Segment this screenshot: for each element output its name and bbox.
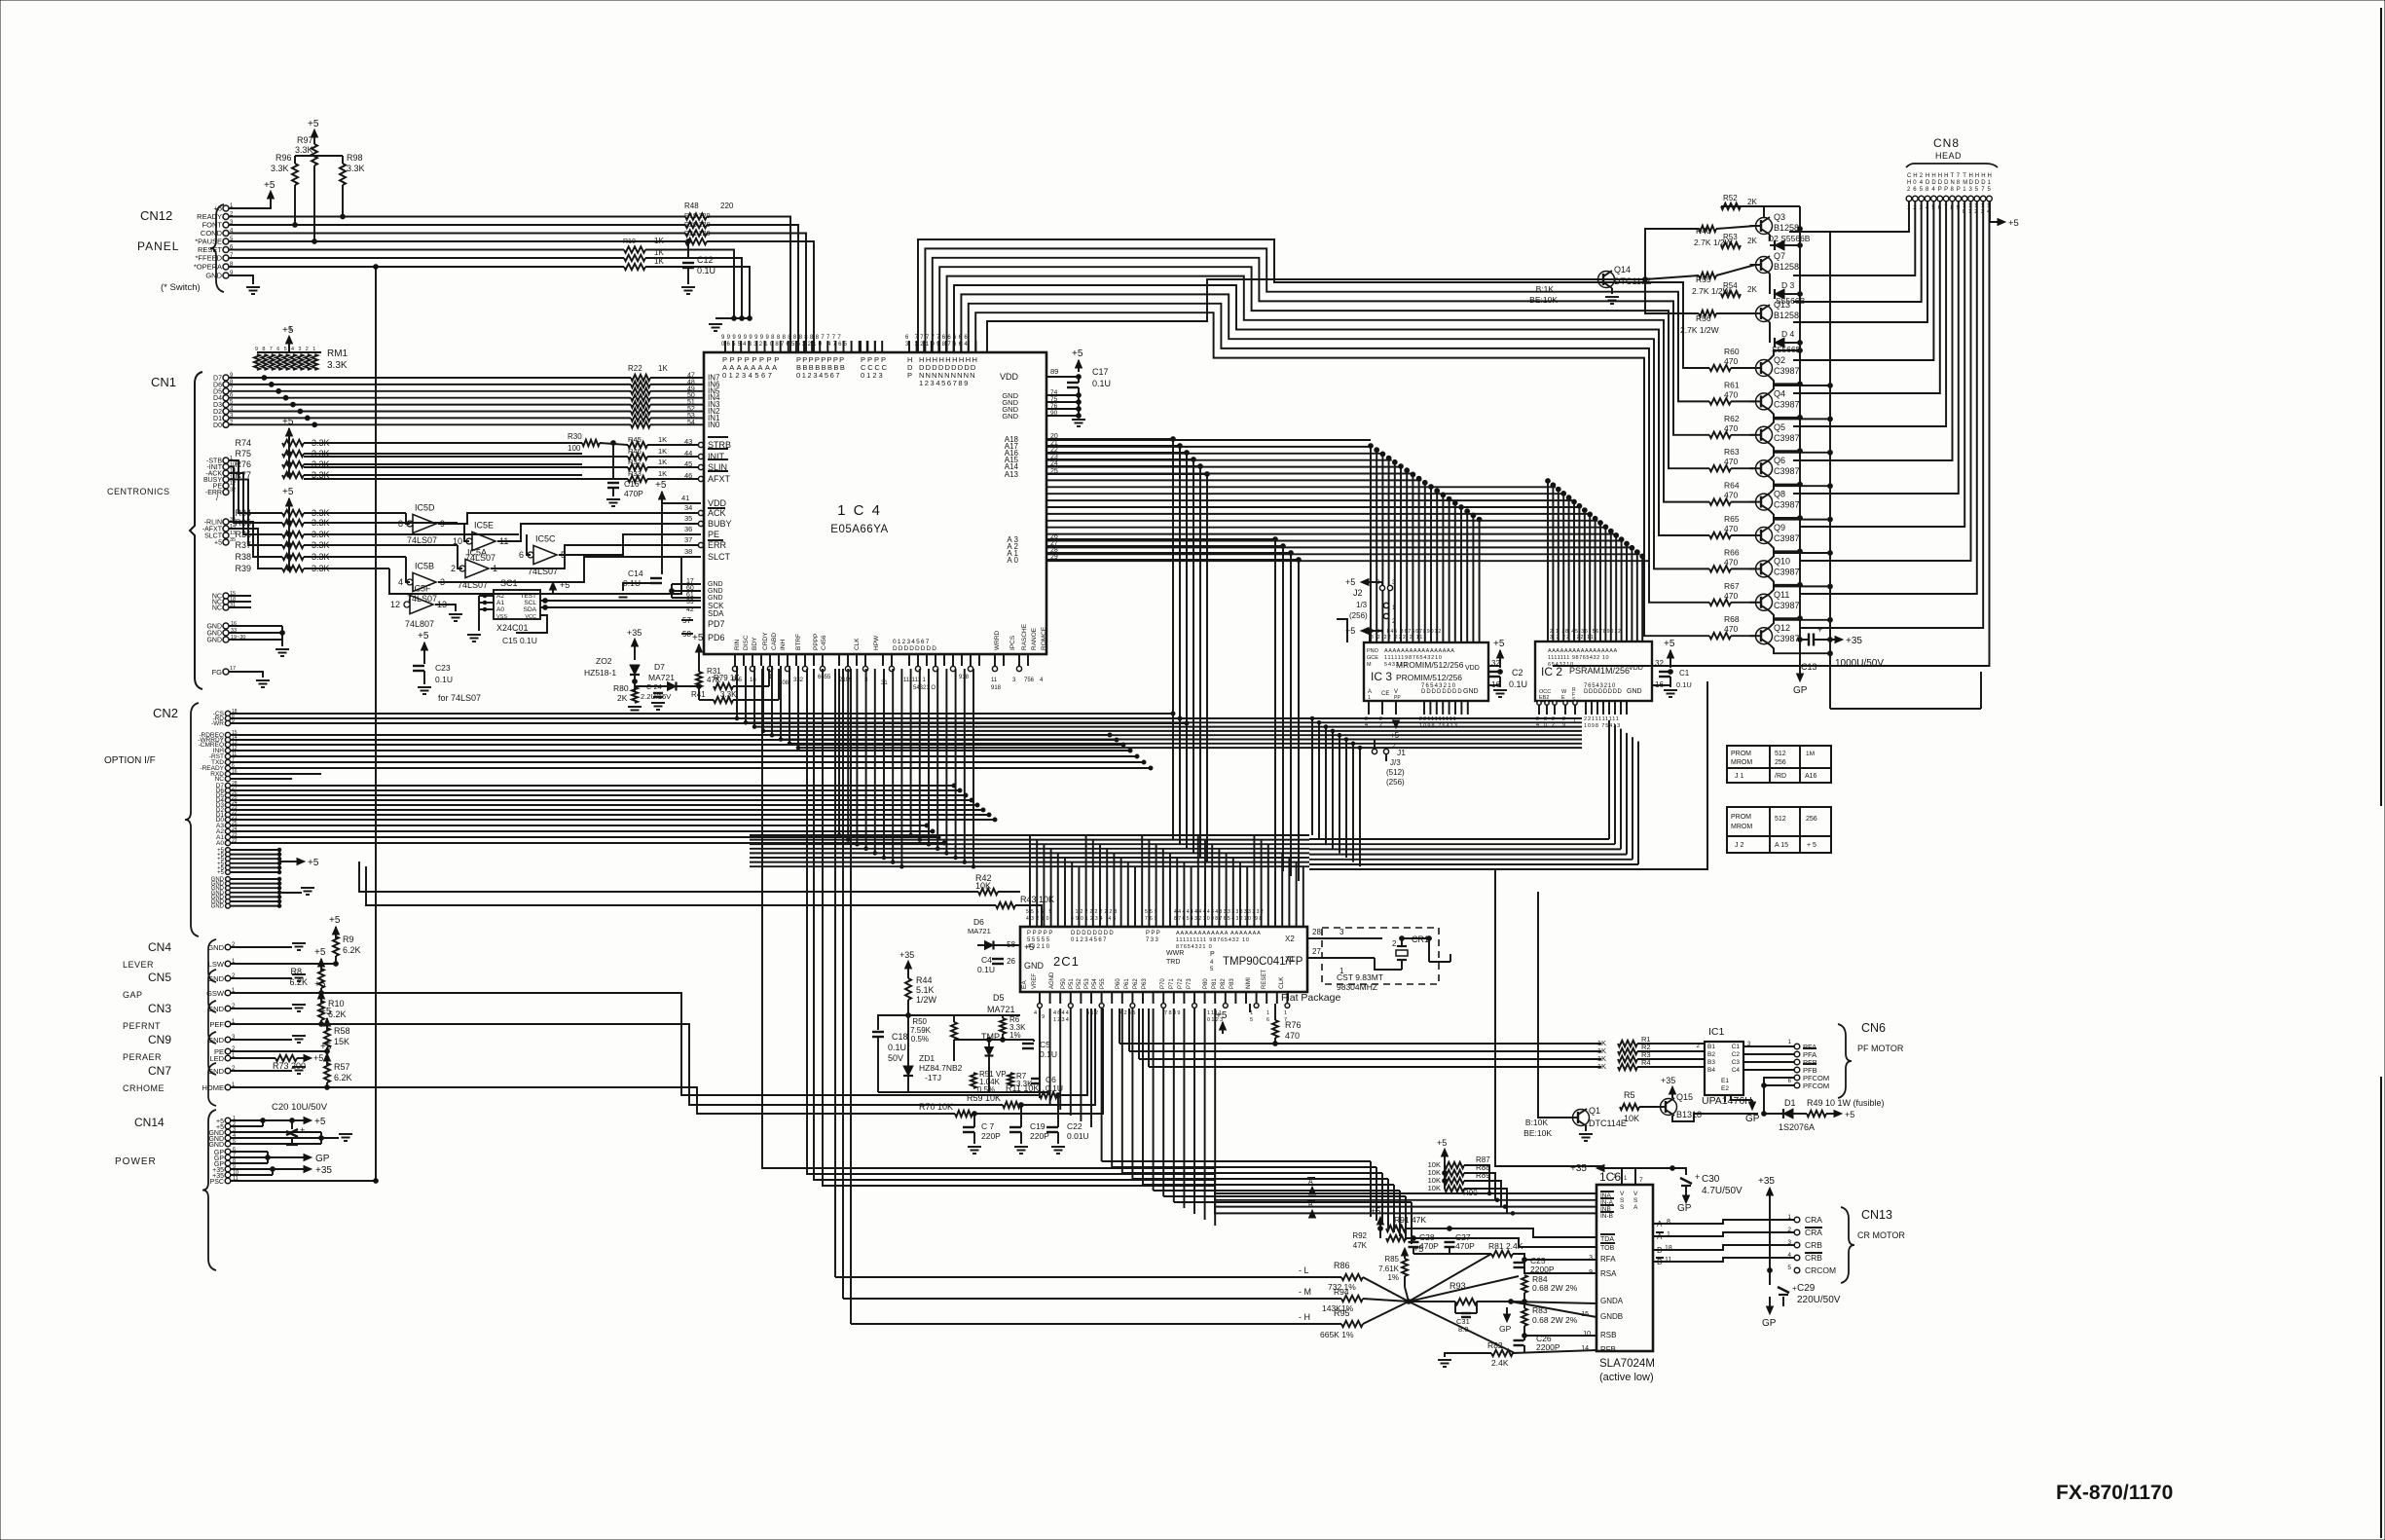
svg-text:LEVER: LEVER	[123, 960, 154, 970]
svg-text:GP: GP	[315, 1154, 330, 1164]
svg-text:D 4: D 4	[1781, 329, 1795, 339]
svg-text:A0: A0	[496, 606, 504, 613]
svg-text:R50: R50	[912, 1017, 927, 1026]
svg-text:*OPERA: *OPERA	[194, 263, 222, 272]
svg-text:1: 1	[1284, 1010, 1287, 1016]
svg-text:(256): (256)	[1349, 611, 1368, 620]
svg-text:V: V	[1620, 1191, 1625, 1197]
svg-text:-RLIN: -RLIN	[204, 520, 222, 527]
svg-text:-WR: -WR	[211, 720, 224, 727]
svg-text:NC: NC	[215, 776, 225, 783]
svg-text:220: 220	[720, 202, 734, 210]
svg-text:2.7K 1/2W: 2.7K 1/2W	[1692, 286, 1731, 296]
svg-text:2: 2	[1392, 939, 1397, 948]
svg-text:+: +	[1695, 1172, 1700, 1182]
svg-text:3.3K: 3.3K	[271, 164, 289, 173]
svg-text:CN1: CN1	[151, 375, 176, 389]
svg-text:GNDB: GNDB	[1600, 1312, 1623, 1321]
svg-text:RANOE: RANOE	[1031, 627, 1038, 650]
svg-text:+5: +5	[560, 580, 569, 590]
svg-text:R22: R22	[628, 364, 642, 373]
svg-text:D 3: D 3	[1781, 280, 1795, 290]
svg-text:2211111111: 2211111111	[1584, 716, 1620, 722]
svg-text:43210: 43210	[1027, 944, 1051, 950]
svg-text:CN3: CN3	[148, 1002, 171, 1015]
svg-text:Q8: Q8	[1774, 490, 1785, 499]
svg-text:3 2 22 222 2 111: 3 2 22 222 2 111	[1371, 635, 1427, 641]
svg-text:DTC113Z: DTC113Z	[1614, 276, 1652, 286]
svg-text:S5566B: S5566B	[1776, 296, 1806, 306]
svg-text:D0: D0	[213, 422, 222, 429]
svg-text:1K: 1K	[1597, 1062, 1606, 1071]
svg-text:DDDDDDDD: DDDDDDDD	[893, 645, 937, 652]
svg-text:R46: R46	[628, 447, 642, 456]
svg-text:R58: R58	[334, 1026, 350, 1036]
svg-text:B1318: B1318	[1676, 1110, 1702, 1119]
svg-text:PANEL: PANEL	[137, 239, 179, 253]
svg-text:CN13: CN13	[1861, 1208, 1892, 1222]
svg-text:01234567: 01234567	[722, 371, 774, 380]
svg-text:T: T	[1951, 173, 1955, 179]
svg-text:2K: 2K	[1747, 285, 1757, 294]
svg-text:11: 11	[991, 678, 998, 683]
svg-text:1K: 1K	[658, 364, 668, 373]
svg-text:PF MOTOR: PF MOTOR	[1857, 1044, 1904, 1053]
svg-text:470: 470	[1724, 491, 1738, 500]
svg-text:01234567: 01234567	[1071, 937, 1108, 943]
svg-text:0.1U: 0.1U	[1092, 379, 1111, 388]
svg-text:+5: +5	[1216, 1010, 1228, 1021]
svg-text:R8: R8	[290, 967, 302, 976]
svg-text:3.3K: 3.3K	[327, 360, 348, 371]
svg-text:R67: R67	[1724, 581, 1740, 591]
svg-text:+5: +5	[282, 487, 294, 497]
svg-text:HOME: HOME	[202, 1083, 225, 1092]
svg-text:- L: - L	[1299, 1265, 1309, 1275]
svg-text:DDDDDDDD: DDDDDDDD	[1584, 689, 1623, 695]
svg-text:P61: P61	[1124, 978, 1130, 989]
svg-text:J 1: J 1	[1735, 773, 1743, 780]
svg-text:2: 2	[1787, 1227, 1791, 1233]
svg-text:27: 27	[1312, 947, 1321, 956]
svg-text:P: P	[1938, 187, 1942, 193]
svg-text:D2 S5566B: D2 S5566B	[1768, 234, 1811, 243]
svg-text:4: 4	[291, 347, 294, 352]
svg-text:01234567: 01234567	[893, 639, 931, 645]
svg-text:512: 512	[1775, 816, 1786, 823]
svg-text:2K: 2K	[1747, 198, 1757, 206]
svg-text:0 39 845 36756789012: 0 39 845 36756789012	[1371, 629, 1442, 635]
svg-text:IC5E: IC5E	[474, 520, 494, 530]
svg-text:PROMIM/512/256: PROMIM/512/256	[1396, 673, 1462, 682]
svg-text:1M: 1M	[1806, 751, 1815, 757]
svg-text:C456: C456	[821, 635, 827, 650]
svg-text:1K: 1K	[658, 469, 667, 478]
svg-text:B:1K: B:1K	[1536, 284, 1555, 294]
svg-text:R68: R68	[1724, 614, 1740, 624]
svg-text:GND: GND	[205, 272, 222, 280]
svg-text:NMI: NMI	[1245, 977, 1252, 989]
svg-text:J1: J1	[1397, 748, 1406, 757]
svg-text:AFXT: AFXT	[708, 474, 731, 484]
svg-text:CN9: CN9	[148, 1033, 171, 1046]
svg-text:470: 470	[1724, 356, 1738, 366]
svg-text:- H: - H	[1299, 1312, 1310, 1322]
svg-text:7: 7	[270, 347, 273, 352]
svg-text:IC5B: IC5B	[415, 561, 434, 570]
svg-text:C3: C3	[1732, 1059, 1741, 1066]
svg-text:R48: R48	[684, 202, 699, 210]
svg-text:8: 8	[398, 519, 403, 529]
svg-text:9999999998888888887777: 9999999998888888887777	[721, 335, 843, 341]
svg-text:1122222223: 1122222223	[1071, 909, 1119, 915]
svg-text:C22: C22	[1067, 1121, 1082, 1131]
svg-text:CRA: CRA	[1805, 1215, 1822, 1225]
svg-text:C1: C1	[1732, 1044, 1741, 1050]
svg-text:GND: GND	[206, 631, 222, 638]
svg-text:PP: PP	[1394, 695, 1401, 701]
svg-text:2C1: 2C1	[1053, 954, 1080, 969]
svg-text:PEF: PEF	[209, 1020, 224, 1029]
svg-text:0.01U: 0.01U	[1067, 1131, 1089, 1141]
svg-text:C12: C12	[697, 255, 714, 265]
svg-text:C3987: C3987	[1774, 533, 1800, 543]
svg-text:SCL: SCL	[524, 600, 536, 606]
svg-text:SDA: SDA	[708, 609, 724, 618]
svg-text:256: 256	[1775, 759, 1786, 766]
svg-text:D5: D5	[993, 993, 1005, 1003]
svg-text:Q12: Q12	[1774, 623, 1790, 633]
svg-text:HPW: HPW	[873, 635, 880, 650]
svg-text:R81 2.4K: R81 2.4K	[1488, 1241, 1523, 1251]
svg-text:4: 4	[1034, 1010, 1037, 1016]
svg-text:B3: B3	[1707, 1059, 1715, 1066]
svg-text:TOB: TOB	[1600, 1245, 1615, 1252]
svg-text:1111111 98765432 10: 1111111 98765432 10	[1548, 655, 1609, 661]
svg-text:-AFXT: -AFXT	[202, 527, 223, 533]
svg-text:PNO: PNO	[1367, 648, 1379, 654]
svg-text:BE:10K: BE:10K	[1529, 295, 1558, 305]
svg-text:(active low): (active low)	[1599, 1372, 1654, 1383]
svg-text:6655: 6655	[818, 675, 831, 680]
svg-text:1/3: 1/3	[1356, 601, 1368, 609]
svg-text:R49 10 1W (fusible): R49 10 1W (fusible)	[1807, 1098, 1885, 1108]
svg-text:74LS07: 74LS07	[407, 535, 437, 545]
svg-text:C3987: C3987	[1774, 601, 1800, 610]
svg-text:GND: GND	[208, 1142, 224, 1149]
svg-text:+35: +35	[1846, 636, 1862, 646]
svg-text:PERAER: PERAER	[123, 1052, 162, 1062]
svg-text:Q2: Q2	[1774, 355, 1785, 365]
svg-text:R73 200: R73 200	[273, 1061, 306, 1071]
svg-text:R86: R86	[1334, 1261, 1350, 1270]
svg-text:CRB: CRB	[1805, 1240, 1822, 1250]
svg-text:2: 2	[451, 564, 456, 573]
svg-text:CRDY: CRDY	[762, 632, 769, 650]
svg-text:R35: R35	[235, 518, 251, 528]
svg-text:1000U/50V: 1000U/50V	[1835, 658, 1884, 669]
svg-text:54321 O: 54321 O	[913, 685, 936, 691]
svg-text:IC5F: IC5F	[412, 583, 431, 593]
svg-text:R20 220: R20 220	[684, 222, 711, 229]
svg-text:665K 1%: 665K 1%	[1320, 1330, 1354, 1339]
svg-text:5: 5	[1787, 1265, 1791, 1271]
svg-text:100: 100	[568, 444, 581, 453]
svg-text:A: A	[1633, 1204, 1638, 1211]
svg-text:5.1K: 5.1K	[916, 985, 935, 995]
svg-text:+5: +5	[1413, 1244, 1423, 1254]
svg-text:Q1: Q1	[1589, 1106, 1600, 1116]
svg-text:765: 765	[1145, 916, 1159, 922]
svg-text:GND: GND	[1002, 412, 1018, 421]
svg-text:1: 1	[1613, 1173, 1617, 1180]
svg-text:C1: C1	[1679, 669, 1690, 678]
svg-text:P70: P70	[1160, 978, 1166, 989]
svg-text:DDDDDDDD: DDDDDDDD	[1421, 689, 1463, 695]
svg-text:R80: R80	[613, 683, 629, 693]
svg-text:PSC: PSC	[210, 1179, 224, 1186]
svg-text:AAAAAAAAAAAA AAAAAAA: AAAAAAAAAAAA AAAAAAA	[1176, 931, 1262, 936]
svg-text:P: P	[1210, 951, 1215, 958]
svg-text:R21 220: R21 220	[684, 231, 711, 238]
svg-text:R39: R39	[235, 564, 251, 573]
svg-text:MA721: MA721	[968, 927, 991, 935]
svg-text:26: 26	[1007, 957, 1015, 966]
svg-text:CE: CE	[1381, 691, 1389, 697]
svg-text:50V: 50V	[888, 1053, 903, 1063]
svg-text:+35: +35	[1661, 1076, 1675, 1085]
svg-text:R64: R64	[1724, 481, 1740, 491]
svg-text:98304MHZ: 98304MHZ	[1337, 982, 1377, 992]
svg-text:CN5: CN5	[148, 971, 171, 984]
svg-text:C 7: C 7	[981, 1121, 995, 1131]
svg-text:PPPP: PPPP	[813, 634, 820, 650]
svg-text:GND: GND	[207, 1036, 224, 1045]
svg-text:(256): (256)	[1386, 778, 1405, 787]
svg-text:T: T	[1963, 173, 1966, 179]
svg-text:7.61K: 7.61K	[1378, 1265, 1400, 1273]
svg-text:8.0: 8.0	[1458, 1325, 1468, 1334]
svg-text:+: +	[300, 1125, 305, 1135]
svg-text:220P: 220P	[981, 1131, 1001, 1141]
svg-text:E2: E2	[1721, 1085, 1729, 1092]
svg-text:CENTRONICS: CENTRONICS	[107, 487, 170, 496]
svg-text:470P: 470P	[1455, 1241, 1475, 1251]
svg-text:C2: C2	[1732, 1051, 1741, 1058]
svg-text:A: A	[1308, 1179, 1313, 1186]
svg-text:GP: GP	[1793, 685, 1808, 696]
svg-text:B1: B1	[1707, 1044, 1715, 1050]
svg-text:CRB: CRB	[1805, 1253, 1822, 1263]
svg-text:+5: +5	[214, 540, 222, 547]
svg-text:RFB: RFB	[1600, 1345, 1616, 1354]
svg-text:MA721: MA721	[648, 673, 675, 682]
svg-text:R36: R36	[235, 530, 251, 539]
svg-text:2.7K 1/2W: 2.7K 1/2W	[1680, 325, 1719, 335]
svg-text:10K: 10K	[1428, 1184, 1441, 1192]
svg-text:+5: +5	[1845, 1110, 1854, 1119]
svg-text:35: 35	[684, 514, 692, 523]
svg-text:WWR: WWR	[1166, 950, 1184, 957]
svg-text:R60: R60	[1724, 347, 1740, 356]
svg-text:P80: P80	[1203, 978, 1209, 989]
svg-text:H: H	[1931, 173, 1935, 179]
svg-text:R5: R5	[1624, 1090, 1635, 1100]
svg-text:P51: P51	[1069, 978, 1075, 989]
svg-text:GND: GND	[206, 624, 222, 631]
svg-text:C2: C2	[1512, 668, 1523, 678]
svg-text:75: 75	[1050, 396, 1058, 403]
svg-text:Q5: Q5	[1774, 422, 1785, 432]
svg-text:P: P	[1944, 187, 1948, 193]
svg-text:1: 1	[1787, 1214, 1791, 1221]
svg-text:Q9: Q9	[1774, 523, 1785, 532]
svg-text:R10: R10	[623, 238, 636, 245]
svg-text:WRRD: WRRD	[994, 630, 1001, 650]
svg-text:D: D	[1981, 180, 1986, 186]
svg-text:D6: D6	[973, 917, 984, 927]
svg-text:R9: R9	[343, 935, 354, 944]
svg-text:J2: J2	[1353, 588, 1363, 598]
svg-text:J/3: J/3	[1390, 758, 1401, 767]
svg-text:R70 10K: R70 10K	[919, 1102, 953, 1112]
svg-text:M: M	[1367, 662, 1372, 668]
svg-text:9: 9	[1042, 1014, 1045, 1020]
svg-text:918: 918	[991, 685, 1002, 691]
svg-text:INH: INH	[780, 640, 787, 651]
svg-text:H: H	[1969, 173, 1973, 179]
svg-text:01234567: 01234567	[796, 371, 841, 380]
svg-text:76543210: 76543210	[1421, 683, 1456, 689]
svg-text:+35: +35	[627, 628, 642, 638]
svg-text:R90: R90	[1463, 1189, 1478, 1197]
svg-text:IC 3: IC 3	[1371, 670, 1392, 683]
svg-text:VDD: VDD	[1629, 665, 1643, 672]
svg-text:4.7U/50V: 4.7U/50V	[1702, 1186, 1743, 1196]
svg-text:RM1: RM1	[327, 348, 349, 359]
svg-text:470: 470	[1724, 457, 1738, 466]
svg-text:1111119876543210: 1111119876543210	[1384, 655, 1443, 661]
svg-text:P81: P81	[1212, 978, 1218, 989]
svg-text:CABD: CABD	[771, 633, 778, 650]
svg-text:470: 470	[1724, 423, 1738, 433]
svg-text:0.1U: 0.1U	[697, 266, 715, 275]
svg-text:CN8: CN8	[1933, 136, 1960, 150]
svg-text:+35: +35	[315, 1165, 332, 1176]
svg-text:1%: 1%	[1009, 1031, 1021, 1040]
svg-text:RESET: RESET	[1262, 970, 1267, 989]
svg-text:TDA: TDA	[1600, 1236, 1614, 1243]
svg-text:TRD: TRD	[1166, 959, 1180, 966]
svg-text:NC: NC	[212, 605, 222, 612]
svg-text:- M: - M	[1299, 1287, 1311, 1297]
svg-text:3.3K: 3.3K	[1016, 1080, 1033, 1088]
svg-text:GND: GND	[1463, 688, 1479, 695]
svg-text:PPPPP: PPPPP	[1027, 931, 1054, 936]
svg-text:C15 0.1U: C15 0.1U	[502, 636, 537, 645]
svg-text:GND: GND	[207, 1005, 224, 1013]
svg-text:2K: 2K	[617, 693, 628, 703]
svg-text:470: 470	[1285, 1031, 1300, 1041]
svg-text:GND: GND	[1627, 688, 1642, 695]
svg-text:Q10: Q10	[1774, 556, 1790, 566]
svg-text:R83: R83	[1532, 1305, 1548, 1315]
svg-text:R59 10K: R59 10K	[967, 1093, 1001, 1103]
svg-text:P: P	[907, 371, 912, 380]
svg-text:P73: P73	[1187, 978, 1192, 989]
svg-text:GND: GND	[207, 974, 224, 983]
svg-text:CR MOTOR: CR MOTOR	[1857, 1230, 1905, 1240]
svg-text:R30: R30	[568, 432, 582, 441]
svg-text:*FFEED: *FFEED	[195, 254, 222, 263]
svg-text:AAAAAAAAAAAAAAAAA: AAAAAAAAAAAAAAAAA	[1548, 648, 1618, 654]
svg-text:4: 4	[398, 577, 403, 587]
svg-text:ZD1: ZD1	[919, 1053, 935, 1063]
svg-text:D: D	[1969, 180, 1974, 186]
svg-text:S: S	[1620, 1197, 1625, 1204]
svg-text:C17: C17	[1092, 367, 1109, 377]
svg-text:A 0: A 0	[1007, 556, 1018, 565]
svg-text:VDD: VDD	[1000, 372, 1019, 382]
svg-text:GND: GND	[1024, 961, 1045, 971]
svg-text:A16: A16	[1805, 773, 1817, 780]
svg-text:0.1U: 0.1U	[1509, 679, 1527, 689]
svg-text:R82: R82	[1487, 1340, 1503, 1350]
svg-text:GAP: GAP	[123, 990, 143, 1000]
svg-text:74: 74	[1050, 389, 1058, 396]
svg-text:R45: R45	[628, 435, 642, 444]
svg-text:C3987: C3987	[1774, 567, 1800, 576]
svg-text:H: H	[1907, 180, 1911, 186]
svg-text:D: D	[1944, 180, 1949, 186]
svg-text:PD7: PD7	[708, 619, 725, 629]
svg-text:9: 9	[255, 347, 258, 352]
svg-text:R33: R33	[628, 469, 642, 478]
svg-text:R74: R74	[235, 438, 251, 448]
svg-text:ZO2: ZO2	[596, 656, 612, 666]
svg-text:C3987: C3987	[1774, 466, 1800, 476]
svg-text:ACK: ACK	[708, 508, 726, 518]
svg-text:GND: GND	[206, 638, 222, 644]
svg-text:ROMCE: ROMCE	[1041, 626, 1047, 650]
svg-text:CN12: CN12	[140, 208, 172, 223]
svg-text:6.2K: 6.2K	[334, 1073, 352, 1082]
svg-text:R96: R96	[275, 153, 292, 163]
svg-text:Flat Package: Flat Package	[1281, 992, 1340, 1004]
svg-text:1%: 1%	[1387, 1273, 1399, 1282]
svg-text:1K: 1K	[654, 257, 664, 266]
svg-text:555: 555	[1145, 909, 1159, 915]
svg-text:+5: +5	[264, 180, 275, 191]
svg-text:87654321 0: 87654321 0	[1176, 944, 1213, 950]
svg-text:D7: D7	[654, 662, 665, 672]
svg-text:GP: GP	[1762, 1318, 1777, 1329]
svg-text:-1TJ: -1TJ	[925, 1073, 941, 1082]
svg-text:P62: P62	[1133, 978, 1139, 989]
svg-text:+35: +35	[899, 950, 914, 960]
svg-text:PROM: PROM	[1731, 814, 1751, 821]
svg-text:R76: R76	[1285, 1020, 1302, 1030]
svg-text:R79 1K: R79 1K	[714, 674, 740, 682]
svg-text:41: 41	[681, 494, 689, 502]
svg-text:RIN: RIN	[734, 640, 741, 651]
svg-text:PROM: PROM	[1731, 751, 1751, 757]
svg-text:+5: +5	[1072, 348, 1083, 359]
svg-text:PFCOM: PFCOM	[1803, 1082, 1829, 1090]
svg-text:H: H	[1938, 173, 1942, 179]
svg-text:3: 3	[298, 347, 301, 352]
svg-text:P52: P52	[1077, 978, 1082, 989]
